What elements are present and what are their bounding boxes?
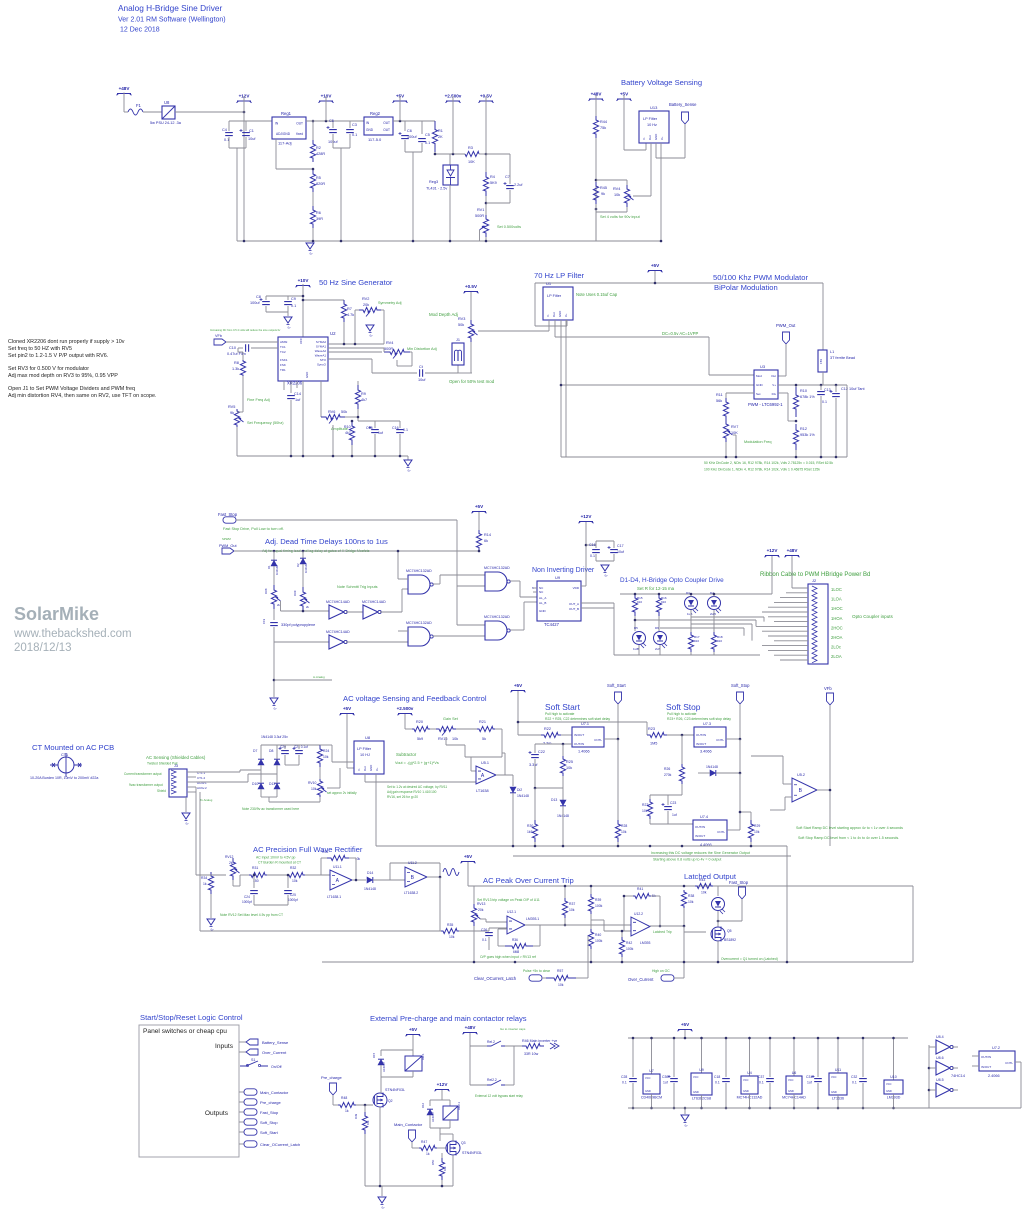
svg-text:RV7: RV7 bbox=[731, 425, 738, 429]
svg-text:Soft Stop: Soft Stop bbox=[666, 702, 701, 712]
junction bbox=[623, 895, 626, 898]
junction bbox=[243, 111, 246, 114]
svg-text:C18: C18 bbox=[714, 1075, 720, 1079]
wire bbox=[534, 788, 536, 820]
wire bbox=[373, 879, 405, 881]
junction bbox=[253, 874, 256, 877]
wire bbox=[690, 652, 692, 655]
RV10 wiper bbox=[322, 788, 327, 792]
resistor R47 bbox=[419, 1145, 437, 1150]
svg-text:Panel switches or cheap cpu: Panel switches or cheap cpu bbox=[143, 1028, 227, 1035]
svg-text:U9: U9 bbox=[555, 575, 561, 580]
svg-text:2k: 2k bbox=[229, 861, 233, 865]
junction bbox=[835, 456, 838, 459]
wire bbox=[458, 372, 472, 374]
IC U2 XR2206 bbox=[278, 337, 328, 381]
svg-text:LP Filter: LP Filter bbox=[547, 294, 562, 298]
wire Ct to J1 bbox=[425, 372, 458, 374]
wire bbox=[349, 134, 351, 148]
wire bbox=[430, 1099, 442, 1101]
svg-text:50 KHz DivCode 2, NDiv 16, R1: 50 KHz DivCode 2, NDiv 16, R12 978k, R14… bbox=[704, 461, 833, 465]
svg-text:PWM - LTC6992-1: PWM - LTC6992-1 bbox=[748, 402, 783, 407]
wire bbox=[485, 919, 487, 922]
wire gnd line to U3 bbox=[561, 384, 754, 386]
junction bbox=[725, 1107, 728, 1110]
wire bbox=[749, 1094, 751, 1108]
sine waveform icon bbox=[443, 869, 459, 876]
wire bbox=[713, 652, 715, 655]
wire bbox=[691, 623, 748, 625]
junction bbox=[595, 179, 598, 182]
wire bbox=[651, 1094, 653, 1108]
wire bbox=[457, 365, 459, 373]
svg-text:CT1: CT1 bbox=[61, 753, 68, 757]
wire RV13 wiper out bbox=[480, 918, 486, 920]
wire bbox=[740, 811, 751, 813]
wire bbox=[972, 1055, 979, 1057]
junction bbox=[649, 845, 652, 848]
wire bbox=[646, 722, 648, 735]
wire bbox=[284, 755, 286, 765]
wire +10V down to U2 bbox=[302, 284, 304, 337]
wire RV16 wiper down bbox=[445, 737, 447, 745]
wire bbox=[319, 767, 321, 779]
svg-text:1LOA: 1LOA bbox=[831, 597, 842, 602]
svg-text:1uf: 1uf bbox=[378, 431, 383, 435]
wire J2 pin 8 bbox=[774, 621, 808, 623]
wire bbox=[667, 820, 669, 824]
wire bbox=[319, 797, 321, 802]
wire bbox=[505, 1084, 514, 1086]
ground bbox=[182, 813, 190, 819]
connector flag VFb bbox=[214, 339, 226, 345]
IC U6 bbox=[786, 1076, 802, 1094]
svg-text:External Pre-charge and main c: External Pre-charge and main contactor r… bbox=[370, 1014, 527, 1023]
svg-text:1.3k: 1.3k bbox=[232, 367, 239, 371]
wire bbox=[305, 874, 330, 876]
svg-text:100k: 100k bbox=[595, 939, 603, 943]
wire J3 pin 2 bbox=[187, 776, 196, 778]
svg-text:Adj. Dead Time Delays 100ns to: Adj. Dead Time Delays 100ns to 1us bbox=[265, 537, 388, 546]
svg-text:Subtractor: Subtractor bbox=[396, 752, 417, 757]
inverter U6.2 bbox=[363, 605, 378, 619]
wire bbox=[331, 745, 333, 762]
capacitor C16b bbox=[592, 550, 600, 553]
svg-text:LP Filter: LP Filter bbox=[643, 117, 658, 121]
wire +5V top rail bbox=[535, 282, 823, 284]
wire bbox=[683, 908, 685, 926]
svg-text:100 KHz DivCode 1, NDiv 4, R1: 100 KHz DivCode 1, NDiv 4, R12 978k, R14… bbox=[704, 468, 820, 472]
junction bbox=[892, 1107, 895, 1110]
wire bbox=[502, 752, 505, 754]
resistor R48 bbox=[338, 1102, 356, 1107]
wire bbox=[518, 734, 541, 736]
svg-text:RV9: RV9 bbox=[293, 590, 297, 596]
svg-text:GND: GND bbox=[756, 383, 764, 387]
mosfet Q2 bbox=[373, 1093, 387, 1107]
resistor R57 bbox=[546, 975, 576, 980]
svg-text:Soft_Start: Soft_Start bbox=[260, 1130, 279, 1135]
svg-text:10k: 10k bbox=[323, 755, 329, 759]
svg-text:C5: C5 bbox=[425, 133, 430, 137]
svg-text:MC74HC132AD: MC74HC132AD bbox=[406, 569, 432, 573]
svg-text:1N4148: 1N4148 bbox=[275, 565, 279, 575]
wire bbox=[320, 744, 332, 746]
wire bbox=[690, 594, 692, 597]
svg-text:820R: 820R bbox=[316, 182, 325, 186]
wire bbox=[650, 794, 682, 796]
wire TL431 to bus bbox=[449, 185, 451, 241]
svg-text:GND: GND bbox=[369, 765, 373, 771]
svg-text:R22 + R25, C22 determines soft: R22 + R25, C22 determines soft start del… bbox=[545, 717, 610, 721]
potentiometer RV8 bbox=[271, 585, 276, 609]
wire to L1 bbox=[822, 283, 824, 350]
svg-text:GND: GND bbox=[366, 128, 374, 132]
wire bbox=[196, 874, 226, 876]
wire bbox=[743, 628, 745, 636]
wire bbox=[210, 894, 212, 918]
wire bbox=[383, 310, 385, 344]
filter module U1 bbox=[543, 287, 573, 320]
wire bbox=[380, 611, 402, 613]
svg-text:R25: R25 bbox=[566, 760, 573, 764]
connector flag VFb 2 bbox=[827, 693, 834, 705]
wire bbox=[399, 421, 401, 428]
svg-text:9vac transformer output: 9vac transformer output bbox=[129, 783, 163, 787]
capacitor C5 bbox=[329, 130, 337, 133]
wire bbox=[452, 1155, 454, 1186]
wire +12V to U9 bbox=[585, 522, 587, 586]
wire bbox=[725, 1083, 727, 1108]
capacitor C25 bbox=[284, 891, 292, 894]
wire bbox=[349, 857, 356, 859]
svg-text:D13: D13 bbox=[551, 798, 557, 802]
wire bbox=[240, 874, 249, 876]
wire bbox=[320, 858, 322, 875]
switch U7.1 4066 bbox=[572, 727, 604, 747]
wire rectifier bottom line bbox=[200, 930, 441, 932]
wire bbox=[501, 729, 503, 757]
wire sine gen ground bus bbox=[237, 455, 408, 457]
wire bbox=[817, 789, 830, 791]
wire bbox=[564, 918, 566, 925]
diode D2 1N4148 bbox=[300, 559, 306, 565]
svg-text:R4: R4 bbox=[490, 175, 495, 179]
IC U4 bbox=[741, 1076, 758, 1094]
wire bbox=[562, 744, 564, 756]
wire bbox=[273, 551, 275, 560]
junction bbox=[717, 920, 720, 923]
svg-text:Set 0.500volts: Set 0.500volts bbox=[497, 225, 521, 229]
wire bbox=[410, 351, 412, 353]
wire bbox=[763, 617, 765, 622]
svg-text:Adj max mod depth on RV3 to 95: Adj max mod depth on RV3 to 95%, 0.95 VP… bbox=[8, 373, 118, 379]
svg-text:74HC14: 74HC14 bbox=[951, 1074, 965, 1078]
wire bbox=[312, 192, 314, 206]
svg-text:2.4066: 2.4066 bbox=[988, 1074, 1000, 1078]
resistor R50 bbox=[439, 1158, 444, 1180]
wire bbox=[701, 1095, 703, 1108]
wire bbox=[485, 154, 487, 172]
wire bbox=[673, 1038, 675, 1077]
wire bbox=[276, 774, 278, 783]
svg-text:IN/OUT: IN/OUT bbox=[981, 1065, 991, 1069]
wire bbox=[739, 704, 741, 739]
wire bbox=[733, 434, 736, 436]
wire bbox=[470, 1045, 487, 1047]
svg-text:MC74HC132AD: MC74HC132AD bbox=[484, 566, 510, 570]
svg-text:OUT/IN: OUT/IN bbox=[695, 825, 705, 829]
jumper J1 bbox=[452, 343, 464, 365]
wire LP V- down bbox=[565, 320, 567, 457]
IC U7 bbox=[643, 1074, 660, 1094]
wire bbox=[562, 806, 564, 846]
inverter U6.1 bbox=[329, 605, 344, 619]
svg-text:Out: Out bbox=[771, 374, 776, 378]
NAND gate U4.3 bbox=[485, 572, 507, 591]
wire bbox=[273, 609, 275, 620]
wire bbox=[613, 554, 615, 561]
svg-text:LT1638.1: LT1638.1 bbox=[327, 895, 341, 899]
svg-text:2LOc: 2LOc bbox=[831, 645, 841, 650]
wire bbox=[287, 895, 289, 905]
resistor R42 bbox=[619, 937, 624, 957]
svg-text:C32: C32 bbox=[851, 1075, 857, 1079]
svg-text:GND: GND bbox=[539, 609, 547, 613]
svg-text:R34: R34 bbox=[201, 876, 207, 880]
wire bbox=[433, 583, 440, 585]
svg-text:1uf: 1uf bbox=[663, 1081, 668, 1085]
svg-text:1N4148: 1N4148 bbox=[364, 887, 376, 891]
svg-text:10 Hz: 10 Hz bbox=[647, 123, 657, 127]
wire bbox=[240, 769, 261, 771]
svg-text:Note Uses 0.15uf Cap: Note Uses 0.15uf Cap bbox=[576, 292, 618, 297]
svg-text:Pull high to activate: Pull high to activate bbox=[667, 712, 697, 716]
svg-text:www.thebackshed.com: www.thebackshed.com bbox=[13, 628, 132, 640]
svg-text:TC2: TC2 bbox=[280, 350, 286, 354]
wire V+ net bbox=[778, 384, 847, 386]
wire VFb feedback line bbox=[829, 705, 831, 846]
svg-text:D3: D3 bbox=[686, 591, 690, 595]
wire bbox=[485, 237, 487, 241]
svg-text:Adj min distortion RV4, then s: Adj min distortion RV4, then same on RV2… bbox=[8, 393, 157, 399]
resistor R10b bbox=[793, 387, 798, 417]
junction bbox=[585, 544, 588, 547]
junction bbox=[364, 1104, 367, 1107]
svg-text:U13: U13 bbox=[650, 105, 658, 110]
svg-text:0.1: 0.1 bbox=[822, 400, 827, 404]
svg-text:+0.5V: +0.5V bbox=[465, 284, 478, 289]
svg-text:U12.1: U12.1 bbox=[507, 910, 516, 914]
wire bbox=[260, 789, 262, 797]
wire J2 pin 2 bbox=[786, 592, 808, 594]
svg-text:0.1: 0.1 bbox=[622, 1081, 627, 1085]
wire bbox=[590, 886, 592, 894]
wire bbox=[510, 629, 524, 631]
junction bbox=[654, 282, 657, 285]
svg-text:GND: GND bbox=[558, 311, 562, 317]
svg-text:Over_Current: Over_Current bbox=[628, 977, 654, 982]
svg-text:Increasing DC from 0.5 4 volt: Increasing DC from 0.5 4 volts will redu… bbox=[210, 328, 281, 332]
wire bottom rail bbox=[365, 1185, 453, 1187]
svg-text:10uf: 10uf bbox=[418, 378, 426, 382]
svg-text:C31: C31 bbox=[806, 1075, 812, 1079]
wire opamp out bbox=[496, 774, 513, 776]
svg-text:Set pin2 to 1.2-1.5 V P/P outp: Set pin2 to 1.2-1.5 V P/P output with RV… bbox=[8, 353, 108, 359]
svg-text:R26: R26 bbox=[664, 767, 670, 771]
resistor R16 bbox=[656, 594, 661, 616]
wire cap bottoms bbox=[229, 147, 246, 149]
diode D14 1N4148 bbox=[367, 877, 373, 883]
svg-text:10k: 10k bbox=[449, 935, 455, 939]
relay contact Rel2.2 bbox=[487, 1080, 505, 1085]
NAND gate U4.2 bbox=[408, 627, 430, 646]
wire bbox=[893, 1038, 895, 1080]
wire bbox=[239, 1051, 246, 1053]
svg-text:VCC: VCC bbox=[693, 1075, 699, 1079]
wire bbox=[398, 578, 408, 580]
svg-text:+10V: +10V bbox=[321, 94, 333, 99]
RV13 wiper bbox=[476, 915, 481, 919]
svg-text:RV1: RV1 bbox=[477, 208, 484, 212]
svg-text:D6: D6 bbox=[655, 626, 659, 630]
wire OUT/IN node bbox=[535, 743, 572, 745]
svg-text:0.1: 0.1 bbox=[715, 1081, 720, 1085]
wire bbox=[421, 143, 423, 152]
svg-text:AC9v.2: AC9v.2 bbox=[197, 786, 207, 790]
wire bbox=[467, 862, 469, 886]
svg-text:VFb: VFb bbox=[215, 334, 222, 338]
capacitor C19 bbox=[270, 623, 278, 626]
LED D4 bbox=[708, 597, 721, 610]
wire bbox=[442, 1099, 450, 1101]
svg-text:953k 1%: 953k 1% bbox=[800, 433, 815, 437]
junction bbox=[399, 120, 402, 123]
svg-text:SYMA1: SYMA1 bbox=[316, 345, 327, 349]
psu module U8 diagonal bbox=[162, 106, 175, 119]
wire bbox=[441, 1153, 443, 1158]
wire bbox=[509, 180, 511, 184]
wire to U8 in bbox=[332, 761, 354, 763]
wire bbox=[725, 442, 727, 457]
wire RV2 net to U2 bbox=[328, 343, 384, 345]
wire bbox=[430, 728, 436, 730]
wire bbox=[266, 295, 303, 297]
wire to bus bbox=[340, 148, 342, 241]
wire bridge top bbox=[261, 744, 320, 746]
wire bbox=[261, 796, 277, 798]
svg-text:Out: Out bbox=[363, 766, 367, 771]
wire Reg2 out bbox=[393, 120, 435, 122]
fuse F1 bbox=[128, 109, 143, 115]
svg-text:R38: R38 bbox=[688, 894, 694, 898]
junction bbox=[928, 1067, 931, 1070]
svg-text:XR2206: XR2206 bbox=[287, 381, 303, 386]
svg-text:10k: 10k bbox=[366, 1120, 370, 1125]
wire bbox=[312, 121, 314, 140]
wire bbox=[498, 928, 507, 930]
svg-text:R40: R40 bbox=[595, 933, 601, 937]
wire bbox=[590, 949, 592, 962]
wire bbox=[399, 434, 401, 456]
wire bbox=[562, 788, 564, 800]
junction bbox=[302, 550, 305, 553]
svg-text:Soft Start: Soft Start bbox=[545, 702, 581, 712]
wire bbox=[634, 616, 636, 631]
wire bbox=[381, 309, 384, 311]
junction bbox=[485, 240, 488, 243]
svg-text:0.1: 0.1 bbox=[590, 554, 595, 558]
svg-text:V+: V+ bbox=[564, 313, 568, 317]
wire bbox=[846, 385, 848, 457]
connector flag Soft_Start out bbox=[244, 1129, 257, 1135]
junction bbox=[632, 1037, 635, 1040]
connector flag Fast_Stop bbox=[223, 517, 236, 523]
wire bbox=[596, 211, 627, 213]
NAND gate U4.1 bbox=[408, 575, 430, 594]
svg-text:Q5: Q5 bbox=[727, 929, 732, 933]
LED D17 bbox=[712, 898, 725, 911]
resistor R41 bbox=[633, 893, 651, 898]
svg-text:RV16, set 26 for g=20: RV16, set 26 for g=20 bbox=[387, 795, 418, 799]
wire bbox=[658, 616, 660, 631]
junction bbox=[725, 456, 728, 459]
svg-text:Overcurrent = Q1 turned on (La: Overcurrent = Q1 turned on (Latched) bbox=[721, 957, 778, 961]
svg-text:RV13: RV13 bbox=[477, 902, 486, 906]
connector flag Soft_Start bbox=[615, 692, 622, 704]
wire bbox=[196, 781, 248, 783]
svg-text:J1: J1 bbox=[456, 338, 460, 342]
capacitor C30 bbox=[670, 1079, 678, 1082]
svg-text:Latched Trip: Latched Trip bbox=[653, 930, 672, 934]
wire bbox=[725, 393, 727, 398]
wire bbox=[470, 757, 472, 771]
wire J2 pin 13 bbox=[762, 645, 808, 647]
wire bbox=[590, 914, 592, 920]
junction bbox=[439, 876, 442, 879]
diode D10 bbox=[258, 784, 264, 790]
junction bbox=[354, 343, 357, 346]
svg-text:0.1: 0.1 bbox=[852, 1081, 857, 1085]
wire cap tops bbox=[229, 120, 246, 122]
svg-text:Current transformer output: Current transformer output bbox=[124, 772, 162, 776]
svg-text:Pre_charge: Pre_charge bbox=[321, 1075, 342, 1080]
wire bbox=[298, 745, 300, 749]
wire bbox=[124, 111, 128, 113]
wire wiper to U13 bbox=[633, 195, 651, 197]
svg-text:Set Frequency (50hz): Set Frequency (50hz) bbox=[247, 421, 284, 425]
capacitor C22 bbox=[531, 755, 539, 758]
svg-text:0.1: 0.1 bbox=[425, 141, 430, 145]
junction bbox=[290, 455, 293, 458]
svg-text:U2: U2 bbox=[330, 331, 336, 336]
svg-text:High on OC: High on OC bbox=[652, 969, 670, 973]
wire to analog bbox=[274, 679, 332, 681]
wire comparator ground rail bbox=[322, 961, 913, 963]
diode D13 1N4148 bbox=[560, 800, 566, 806]
svg-text:+5V: +5V bbox=[409, 1027, 418, 1032]
wire bbox=[303, 299, 344, 301]
wire bbox=[364, 1105, 366, 1112]
wire pin stub bbox=[296, 381, 298, 388]
svg-text:1N4148: 1N4148 bbox=[304, 563, 308, 573]
connector J3 pin 5 bbox=[171, 790, 176, 794]
potentiometer RV10 bbox=[317, 779, 322, 797]
resistor R17 bbox=[688, 632, 693, 652]
junction bbox=[829, 789, 832, 792]
wire bbox=[681, 784, 683, 795]
junction bbox=[739, 811, 742, 814]
